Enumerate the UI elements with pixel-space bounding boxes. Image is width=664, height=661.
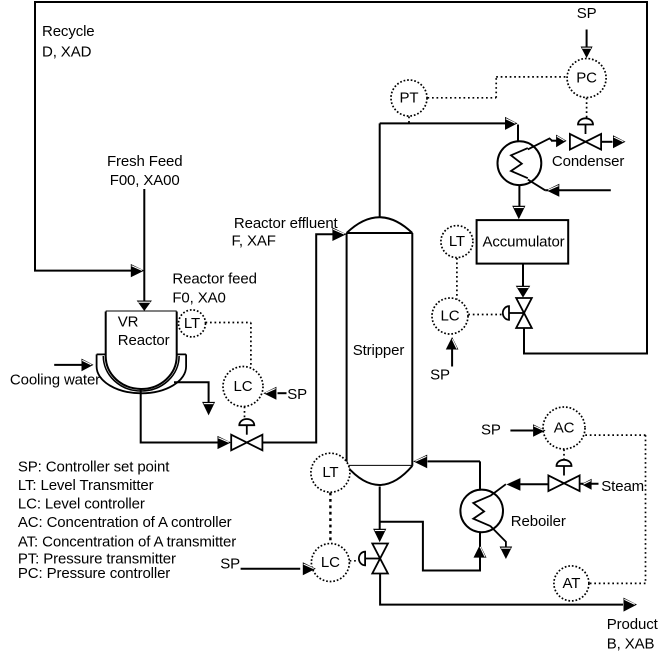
svg-text:Condenser: Condenser <box>552 153 624 170</box>
svg-text:F00, XA00: F00, XA00 <box>110 172 180 189</box>
svg-text:Recycle: Recycle <box>42 23 95 40</box>
svg-text:Cooling water: Cooling water <box>10 372 100 389</box>
svg-text:AC: AC <box>554 420 575 437</box>
svg-text:PT: PT <box>400 90 419 107</box>
svg-text:PC: Pressure controller: PC: Pressure controller <box>18 565 170 582</box>
svg-text:LC: LC <box>441 308 460 325</box>
svg-text:AT: Concentration of A transmi: AT: Concentration of A transmitter <box>18 533 236 550</box>
svg-text:LT: LT <box>449 233 465 250</box>
svg-text:SP: SP <box>577 5 597 22</box>
svg-text:LC: Level controller: LC: Level controller <box>18 495 145 512</box>
svg-text:B, XAB: B, XAB <box>607 635 655 652</box>
svg-text:F0, XA0: F0, XA0 <box>172 290 225 307</box>
svg-text:SP: Controller set point: SP: Controller set point <box>18 459 170 476</box>
svg-text:LT: LT <box>322 464 338 481</box>
svg-text:D, XAD: D, XAD <box>42 44 92 61</box>
svg-text:Stripper: Stripper <box>353 342 405 359</box>
svg-text:Reboiler: Reboiler <box>511 513 566 530</box>
svg-text:LT: LT <box>184 315 200 332</box>
svg-text:Reactor effluent: Reactor effluent <box>234 215 339 232</box>
svg-text:PC: PC <box>576 70 597 87</box>
svg-text:LC: LC <box>234 378 253 395</box>
svg-text:F, XAF: F, XAF <box>232 232 276 249</box>
svg-text:AC: Concentration of A control: AC: Concentration of A controller <box>18 514 232 531</box>
svg-text:Steam: Steam <box>601 478 644 495</box>
svg-text:Accumulator: Accumulator <box>483 234 565 251</box>
svg-text:Fresh Feed: Fresh Feed <box>107 153 183 170</box>
svg-text:VR: VR <box>118 314 139 331</box>
svg-text:SP: SP <box>287 386 307 403</box>
svg-text:Reactor feed: Reactor feed <box>172 271 256 288</box>
svg-text:SP: SP <box>430 366 450 383</box>
svg-text:LT: Level Transmitter: LT: Level Transmitter <box>18 477 154 494</box>
svg-text:Reactor: Reactor <box>118 332 170 349</box>
svg-text:AT: AT <box>562 575 580 592</box>
svg-text:SP: SP <box>481 422 501 439</box>
svg-text:Product: Product <box>607 616 659 633</box>
svg-text:SP: SP <box>220 555 240 572</box>
svg-text:LC: LC <box>321 554 340 571</box>
